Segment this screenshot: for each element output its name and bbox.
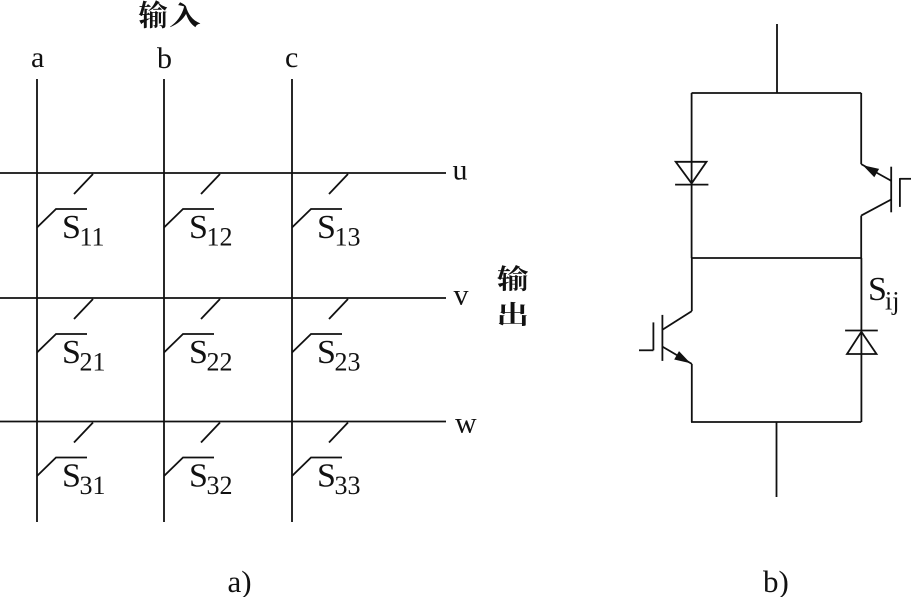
svg-text:S: S [189,209,208,246]
svg-text:S: S [189,458,208,495]
circuit b: lower-left branch wire (top) [691,258,693,311]
svg-text:13: 13 [335,223,361,252]
wire: input line b (vertical) [163,79,165,522]
circuit b: top rail wire [692,92,862,94]
svg-text:32: 32 [207,471,233,500]
switch S13 [292,174,348,228]
svg-text:31: 31 [80,471,106,500]
svg-text:S: S [317,209,336,246]
switch S31 [37,423,93,477]
switch S21 [37,299,93,353]
circuit b: bottom terminal pin [776,422,778,497]
circuit b: middle rail wire [691,257,861,259]
circuit b: lower-left branch wire (bottom) [691,364,693,422]
svg-text:a: a [31,41,44,74]
circuit b: upper-left branch wire [691,93,693,258]
svg-text:S: S [62,209,81,246]
wire: input line a (vertical) [36,79,38,522]
IGBT Q2 emitter arrowhead [674,351,690,363]
circuit b: bottom rail wire [691,421,861,423]
wire: input line c (vertical) [291,79,293,522]
IGBT Q1 (upper right, conducts up) [861,164,911,216]
wire: output line u (horizontal) [0,172,446,174]
circuit b: upper-right branch wire (top) [860,93,862,164]
wire: output line w (horizontal) [0,421,446,423]
diode D1 (upper left, conducts down) [675,162,708,185]
switch S11 [37,174,93,228]
switch S12 [164,174,220,228]
diode D2 (lower right, conducts up) [845,331,878,355]
IGBT Q2 (lower left, conducts down) [639,311,692,364]
svg-text:v: v [454,279,469,312]
svg-text:S: S [62,334,81,371]
svg-text:a): a) [228,564,252,597]
svg-text:w: w [455,407,477,440]
svg-text:12: 12 [207,223,233,252]
circuit b: lower-right branch wire [860,258,862,422]
svg-text:23: 23 [335,348,361,377]
svg-text:b: b [157,42,172,75]
svg-text:S: S [317,458,336,495]
svg-text:S: S [317,334,336,371]
svg-text:ij: ij [885,287,899,316]
IGBT Q1 emitter arrowhead [863,165,879,177]
circuit b: top terminal pin [776,24,778,93]
svg-text:21: 21 [80,348,106,377]
label 输入 (input) [139,0,200,28]
switch S22 [164,299,220,353]
svg-text:22: 22 [207,348,233,377]
svg-text:b): b) [763,564,789,597]
switch S33 [292,423,348,477]
svg-text:S: S [62,458,81,495]
circuit b: upper-right branch wire (bottom) [860,216,862,258]
svg-text:11: 11 [80,223,105,252]
svg-text:33: 33 [335,471,361,500]
svg-text:S: S [189,334,208,371]
wire: output line v (horizontal) [0,297,446,299]
switch S23 [292,299,348,353]
switch S32 [164,423,220,477]
label 输出 (output) [497,265,528,326]
svg-text:c: c [285,41,298,74]
svg-text:u: u [453,154,468,187]
